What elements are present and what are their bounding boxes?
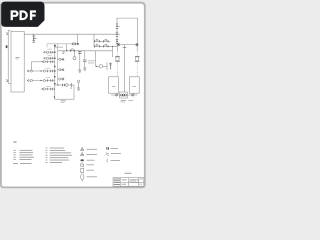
contact K6 bbox=[71, 49, 75, 52]
wire mid rail bbox=[94, 34, 117, 47]
legend damper icon bbox=[80, 159, 94, 161]
pump P1 bbox=[77, 80, 80, 90]
page sheet bbox=[1, 3, 145, 188]
breaker CB2 bbox=[136, 43, 138, 45]
rung R5 right bbox=[58, 87, 63, 89]
rung 2 bbox=[44, 55, 55, 60]
connector J1 bbox=[6, 45, 8, 48]
legend fan icon 2 bbox=[81, 152, 97, 155]
title text above block bbox=[125, 173, 132, 174]
wire motor link bbox=[111, 94, 137, 96]
rung R3 right bbox=[58, 69, 64, 71]
wire upper band bbox=[47, 34, 79, 47]
notes header bbox=[14, 141, 17, 144]
contact K4 bbox=[104, 44, 108, 47]
contact K5 bbox=[72, 43, 76, 46]
strip pins bbox=[54, 45, 56, 90]
wire link vertical bbox=[31, 62, 41, 71]
contact K1 bbox=[94, 39, 102, 42]
feeder wire F2 bbox=[135, 46, 140, 77]
capacitor C1 bbox=[78, 51, 82, 73]
legend duct icon bbox=[106, 147, 118, 150]
terminal T3 bbox=[116, 40, 118, 44]
notes column 2 bbox=[46, 148, 73, 163]
sensor S1 bbox=[73, 51, 76, 60]
rung 1 bbox=[44, 49, 55, 54]
contact K2 bbox=[103, 39, 111, 42]
relay RL1 bbox=[96, 51, 108, 71]
contact K3 bbox=[95, 44, 100, 47]
coil L1 bbox=[109, 63, 111, 70]
legend probe icon bbox=[107, 159, 120, 163]
left bus wire bbox=[6, 30, 11, 83]
rung 6 bbox=[41, 86, 55, 90]
legend filter icon bbox=[81, 168, 94, 172]
rung R0 right bbox=[55, 46, 63, 48]
legend flex icon bbox=[106, 153, 121, 156]
valve V1 bbox=[57, 83, 72, 88]
rung 3 bbox=[41, 59, 55, 63]
terminal T1 bbox=[116, 24, 120, 29]
notes column 1 bbox=[13, 150, 34, 164]
rung R2 right bbox=[58, 58, 64, 60]
rung R4 right bbox=[58, 78, 64, 80]
terminal strip TS1 bbox=[54, 44, 58, 98]
note text mid bbox=[88, 61, 96, 64]
motor box M1 bbox=[109, 77, 119, 93]
legend valve icon bbox=[81, 163, 94, 167]
motor box M2 bbox=[129, 77, 139, 93]
wire top rail bbox=[24, 33, 117, 35]
legend fan icon 1 bbox=[81, 147, 97, 150]
wire branch rail bbox=[58, 44, 113, 57]
label plate N1 bbox=[121, 100, 133, 102]
title block text rows bbox=[114, 179, 143, 185]
feeder wire F1 bbox=[115, 46, 120, 77]
stub ticks bbox=[62, 52, 64, 54]
title block grid bbox=[121, 178, 144, 187]
battery B1 bbox=[32, 34, 36, 42]
terminal T2 bbox=[116, 32, 120, 36]
capacitor C2 bbox=[83, 51, 87, 71]
loop rectangle wires bbox=[117, 18, 138, 44]
controller block U1 bbox=[11, 31, 24, 92]
rung 5 bbox=[27, 77, 55, 81]
terminal block TB1 bbox=[120, 92, 128, 98]
wire TB drop bbox=[123, 45, 127, 92]
legend coil icon bbox=[81, 174, 97, 182]
enclosure box bbox=[55, 85, 74, 103]
breaker CB1 bbox=[117, 43, 120, 46]
title block frame bbox=[113, 178, 144, 187]
PDF badge bbox=[1, 2, 44, 27]
rung 4 bbox=[27, 68, 55, 72]
